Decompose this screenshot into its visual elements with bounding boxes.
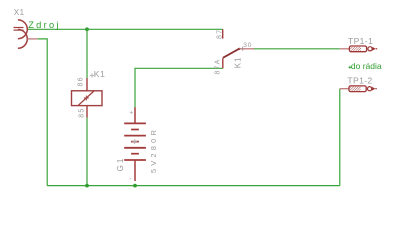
wire switch 30 to TP1-1 bbox=[254, 48, 340, 50]
battery origin cross bbox=[132, 139, 137, 144]
svg-text:87: 87 bbox=[216, 29, 223, 39]
switch contact K1 bbox=[223, 29, 254, 68]
svg-text:G1: G1 bbox=[116, 157, 125, 172]
wire battery plus to switch 87A bbox=[135, 68, 223, 107]
svg-text:X1: X1 bbox=[14, 8, 25, 17]
connector X1 bbox=[14, 20, 38, 48]
svg-text:87A: 87A bbox=[215, 58, 222, 74]
svg-text:+: + bbox=[129, 109, 133, 116]
node junction bottom rail coil bbox=[85, 184, 89, 188]
svg-text:K1: K1 bbox=[234, 57, 243, 68]
svg-text:TP1-2: TP1-2 bbox=[347, 76, 372, 86]
svg-text:do rádia: do rádia bbox=[351, 61, 382, 71]
svg-text:86: 86 bbox=[78, 76, 85, 86]
node junction top rail bbox=[85, 27, 89, 31]
wire TP1-2 to bottom rail bbox=[339, 89, 341, 186]
svg-text:Zdroj: Zdroj bbox=[28, 20, 61, 30]
svg-text:30: 30 bbox=[243, 42, 252, 49]
relay coil K1 bbox=[72, 78, 103, 118]
wire X1 pin2 to bottom rail bbox=[38, 39, 48, 186]
test point TP1-1 bbox=[340, 46, 377, 52]
svg-text:85: 85 bbox=[78, 108, 85, 118]
svg-text:K1: K1 bbox=[94, 69, 106, 79]
wire coil to bottom rail bbox=[86, 118, 88, 186]
node junction bottom rail battery bbox=[133, 184, 137, 188]
svg-text:5V280R: 5V280R bbox=[149, 127, 158, 173]
svg-text:TP1-1: TP1-1 bbox=[348, 36, 373, 46]
battery G1 bbox=[124, 107, 146, 181]
svg-text:-: - bbox=[129, 176, 131, 183]
label K1 relay bbox=[90, 69, 106, 79]
wire coil feed bbox=[86, 29, 88, 78]
wire top rail net Zdroj bbox=[27, 28, 223, 30]
net label do radia bbox=[348, 61, 381, 71]
test point TP1-2 bbox=[340, 86, 377, 92]
wire bottom rail bbox=[47, 185, 340, 187]
